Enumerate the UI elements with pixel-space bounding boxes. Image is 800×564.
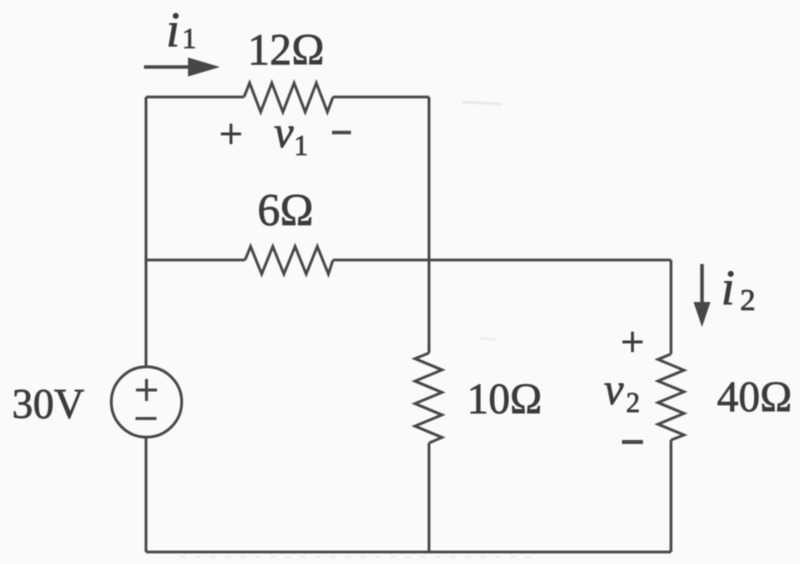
svg-text:40Ω: 40Ω	[717, 374, 792, 421]
wire: middle vertical lower (10ohm to bottom wire)	[428, 443, 431, 552]
svg-text:30V: 30V	[12, 382, 84, 428]
wire: top right segment	[333, 96, 429, 99]
svg-text:v: v	[274, 108, 294, 157]
resistor R1 12ohm zigzag	[244, 83, 333, 112]
current arrow i2	[700, 264, 704, 310]
wire: left vertical lower (source bottom to bottom-left corner)	[145, 438, 148, 553]
wire: right vertical lower (40ohm to bottom-right corner)	[670, 440, 673, 552]
resistor R2 6ohm zigzag	[245, 247, 333, 275]
label minus v2	[622, 440, 643, 444]
svg-text:10Ω: 10Ω	[467, 376, 542, 423]
wire: bottom horizontal	[146, 551, 671, 554]
svg-text:1: 1	[294, 131, 308, 162]
svg-text:i: i	[166, 1, 180, 57]
wire: left vertical upper (source top to top-left corner)	[145, 97, 148, 367]
wire: top left segment	[146, 96, 244, 99]
svg-text:6Ω: 6Ω	[258, 185, 314, 235]
resistor R4 40ohm zigzag	[658, 354, 684, 440]
voltage source plus sign	[145, 379, 148, 401]
svg-text:v: v	[604, 365, 624, 414]
faint scan smudge	[180, 102, 540, 557]
label minus v1	[332, 131, 351, 135]
voltage source minus sign	[136, 417, 157, 420]
svg-text:+: +	[621, 320, 645, 366]
svg-text:+: +	[219, 112, 243, 158]
wire: right vertical upper (middle wire to 40ohm)	[670, 260, 673, 354]
voltage source V1 circle	[111, 367, 181, 437]
wire: middle vertical upper (top-right corner down to 10ohm)	[428, 97, 431, 353]
current arrow i1	[144, 65, 193, 69]
wire: middle horizontal right segment	[333, 259, 671, 262]
svg-text:1: 1	[182, 23, 197, 55]
svg-text:2: 2	[740, 282, 756, 317]
svg-text:2: 2	[626, 388, 640, 419]
resistor R3 10ohm zigzag	[415, 353, 442, 443]
svg-text:i: i	[721, 259, 735, 315]
svg-text:12Ω: 12Ω	[248, 25, 325, 74]
wire: middle horizontal left segment	[146, 259, 245, 262]
